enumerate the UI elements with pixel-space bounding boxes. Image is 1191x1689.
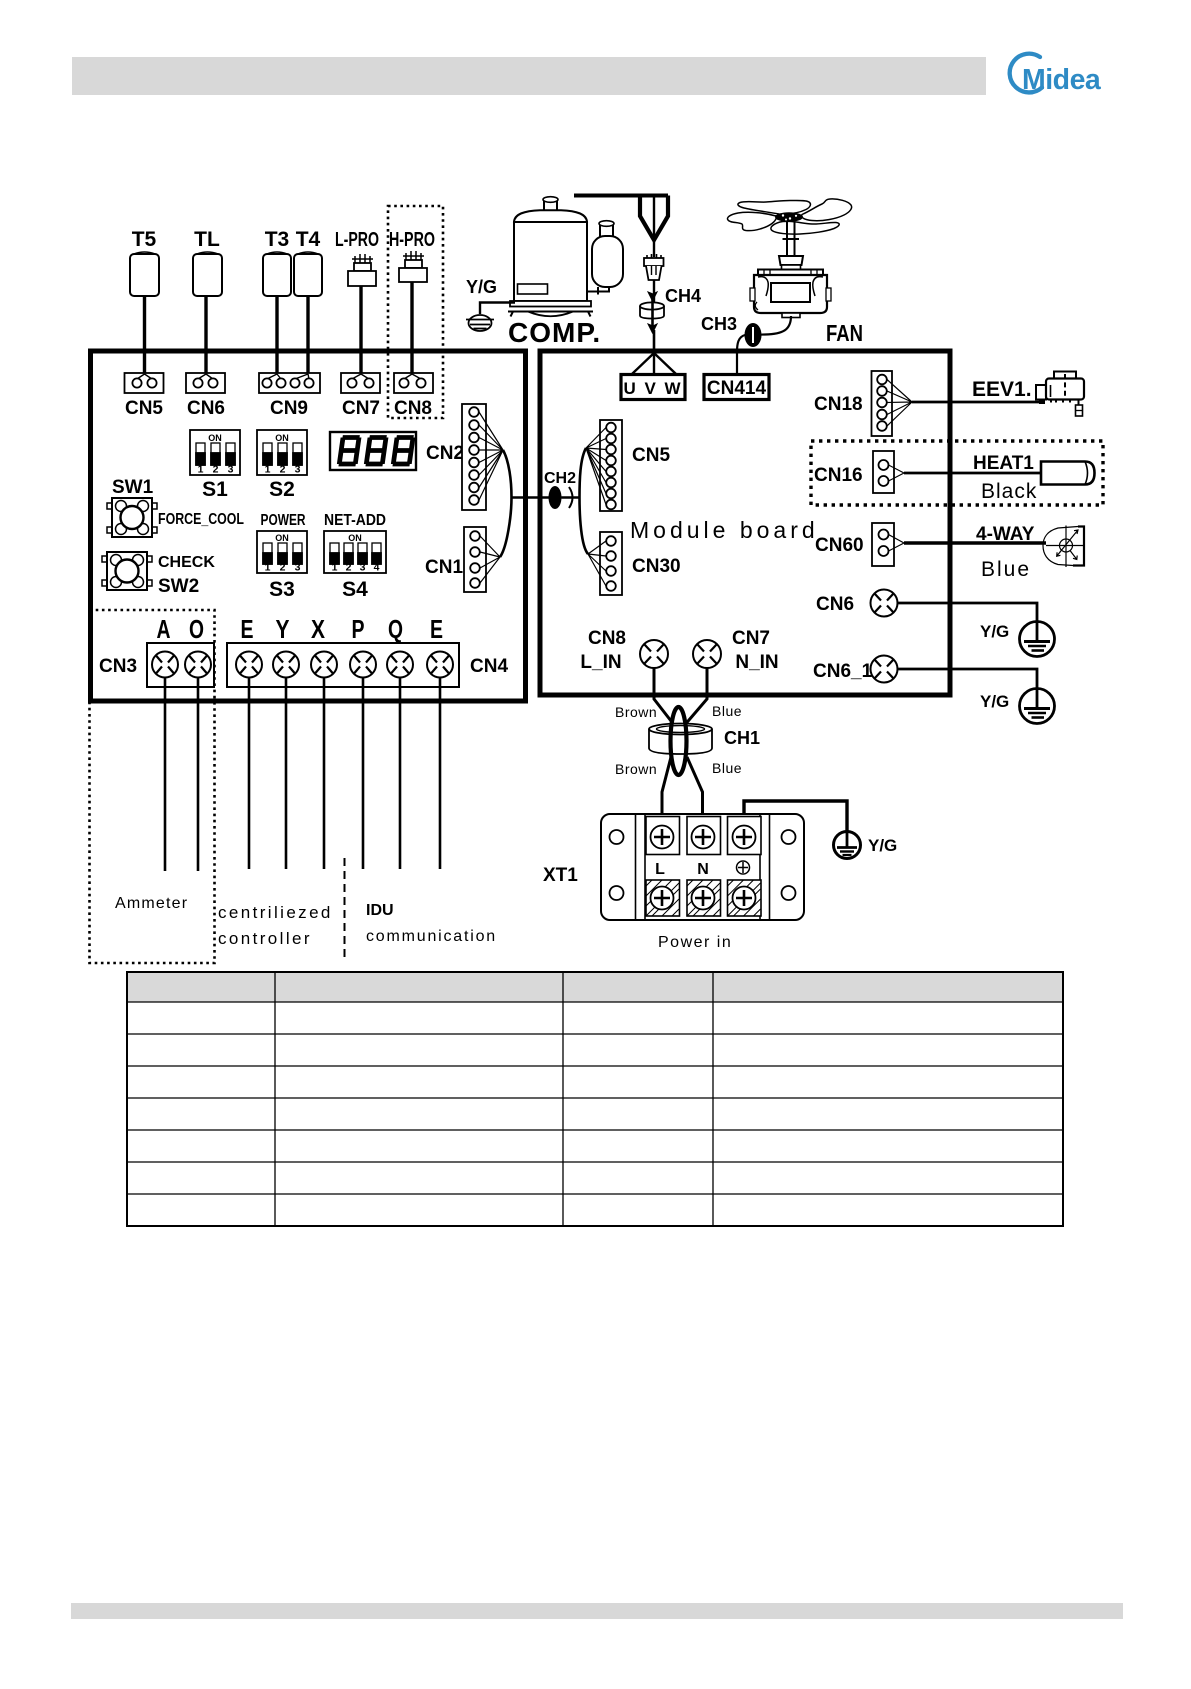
dip switch S3 [257,531,307,574]
svg-text:E: E [430,614,443,644]
svg-text:POWER: POWER [261,512,306,529]
svg-text:CN6_1: CN6_1 [813,661,873,682]
dotted enclosure around H-PRO and CN8 [388,206,443,418]
svg-text:CN30: CN30 [632,556,681,577]
wire from terminal P down [362,678,365,870]
7-segment display [330,432,416,470]
pressure switch H-PRO symbol [399,251,427,282]
screw L bottom [651,887,674,910]
tact switch SW2 [102,552,152,590]
wire CH3 to CN414 [737,335,745,374]
svg-text:Module board: Module board [630,517,819,543]
wires CN16 pins fan-out [889,465,905,481]
svg-text:Y: Y [276,614,290,644]
wire N_IN down [686,668,707,724]
4-way valve coil [1043,526,1084,568]
screw N bottom [692,887,715,910]
svg-text:CN8: CN8 [588,628,626,649]
svg-text:1: 1 [265,562,271,574]
wire CH1 to terminal N [687,757,703,826]
sensor T5 body [130,252,159,296]
screw earth top [733,826,756,849]
wire from terminal Y down [285,678,288,870]
svg-text:T4: T4 [296,228,321,251]
dip switch S4 [324,531,386,574]
dip switch S2 [257,430,307,476]
wire CN2 fan point to junction [503,450,512,498]
svg-text:HEAT1: HEAT1 [973,453,1034,474]
svg-text:Ammeter: Ammeter [115,895,188,912]
dotted enclosure CN3/Ammeter [90,610,215,963]
svg-text:ON: ON [275,533,289,543]
screw terminal Y [273,652,299,678]
svg-text:CN414: CN414 [707,378,767,399]
connector CN1 [464,527,486,592]
svg-text:centriliezed: centriliezed [218,903,333,922]
svg-text:Y/G: Y/G [980,692,1009,711]
wire H-PRO to CN8 [410,282,413,374]
top header bar [72,57,986,95]
LEFT BOARD [90,351,526,963]
wire motor to CH3 [745,316,791,335]
connector CN18 [872,371,893,436]
terminal block CN4 [227,643,459,687]
wire CN60 to 4-WAY [904,541,1046,544]
dip switch S1 [190,430,240,476]
svg-text:Y/G: Y/G [868,836,897,855]
svg-text:CN6: CN6 [816,594,854,615]
svg-text:ON: ON [348,533,362,543]
svg-text:X: X [311,614,326,644]
svg-text:ON: ON [208,433,222,443]
svg-text:CHECK: CHECK [158,554,215,571]
svg-text:4: 4 [374,562,380,574]
fan shaft [779,222,803,270]
svg-text:NET-ADD: NET-ADD [324,512,386,529]
protective earth (CN6) [1020,622,1055,657]
svg-text:CN60: CN60 [815,535,864,556]
screw terminal CN6_1 [871,656,898,683]
wire CN18 to EEV1 [912,401,1040,404]
svg-text:EEV1.: EEV1. [972,378,1032,401]
COMP ASSEMBLY [466,196,701,356]
screw terminal CN6 [871,590,898,617]
dashed separator line [344,858,346,957]
screw terminal X [311,652,337,678]
svg-text:3: 3 [360,562,366,574]
svg-text:H-PRO: H-PRO [389,229,435,251]
screw terminal CN8 L_IN [640,640,668,668]
svg-text:CN1: CN1 [425,557,463,578]
crankcase heater HEAT1 [1041,462,1095,485]
svg-text:P: P [352,614,365,644]
svg-text:3: 3 [295,464,301,476]
SENSORS [130,206,443,418]
MODULE BOARD [512,351,1104,695]
wire from terminal O down [197,678,200,872]
svg-text:E: E [241,614,254,644]
wire funnel to comp plug [653,240,655,257]
svg-text:O: O [189,614,204,644]
svg-text:S4: S4 [342,578,368,601]
svg-text:2: 2 [280,464,286,476]
wire plug to CH4 [653,280,655,303]
svg-text:S1: S1 [202,478,228,501]
svg-text:FORCE_COOL: FORCE_COOL [158,511,244,528]
wire T5 to CN5 [143,296,146,374]
svg-text:CH2: CH2 [544,470,576,487]
compressor body [508,197,593,317]
connector CN16 [873,451,894,493]
wire CN6 to earth [898,603,1038,623]
table column lines [274,972,276,1226]
wire T4 to CN9 [306,296,309,374]
RIGHT DEVICES [972,372,1095,724]
svg-text:Blue: Blue [712,760,742,776]
svg-text:TL: TL [194,228,220,251]
svg-text:CN3: CN3 [99,656,137,677]
arc mark after CH2 [569,487,573,508]
wire from terminal E2 down [439,678,442,870]
svg-text:L: L [655,861,665,878]
wires CN2 pins fan-out [479,412,503,500]
svg-text:SW1: SW1 [112,477,154,498]
wire CN6_1 to earth [898,669,1038,690]
svg-text:ON: ON [275,433,289,443]
bottom terminal boxes [646,880,761,916]
svg-text:2: 2 [280,562,286,574]
wires CN5 pins fan-in [586,428,606,505]
current transformer CH1 [649,724,712,755]
svg-text:CN4: CN4 [470,656,508,677]
svg-text:Black: Black [981,480,1037,503]
connector CN414 [704,375,769,400]
svg-text:S2: S2 [269,478,295,501]
ferrite bead CH3 [745,323,762,347]
wire loop through CH1 [671,707,687,775]
wire fork into UVW [632,353,676,374]
svg-text:N_IN: N_IN [735,652,778,673]
wire CH1 to terminal L [662,757,671,826]
wire L_IN down [654,668,673,724]
terminal block XT1 [601,814,804,920]
svg-text:COMP.: COMP. [508,317,601,348]
svg-text:CN7: CN7 [732,628,770,649]
svg-text:CH1: CH1 [724,728,760,748]
wire junction to CH2 [512,496,550,499]
svg-text:CN9: CN9 [270,398,308,419]
connector CN60 [872,523,894,566]
svg-text:T5: T5 [132,228,157,251]
svg-text:Blue: Blue [981,558,1031,581]
wire from terminal A down [164,678,167,872]
svg-text:controller: controller [218,929,312,948]
screw earth bottom [733,887,756,910]
table outer border [127,972,1063,1226]
screw terminal P [350,652,376,678]
wire L-PRO to CN7 [359,286,362,374]
svg-text:CN5: CN5 [125,398,163,419]
wire CN30 fan point to junction [580,498,589,555]
terminal block CN3 [147,643,214,687]
screw terminal O [185,652,211,678]
svg-text:Power in: Power in [658,934,732,951]
wire CN1 fan point to junction [500,498,512,558]
wire CH2 to module junction [562,496,580,499]
accumulator tank [587,221,623,295]
wire CN16 to HEAT1 [904,472,1041,475]
svg-text:Brown: Brown [615,761,657,777]
tact switch SW1 [107,498,157,537]
wire terminal earth to Y/G [744,801,847,831]
screw N top [692,826,715,849]
screw terminal CN7 N_IN [693,640,721,668]
protective earth (CN6_1) [1020,689,1055,724]
wire arrow through CH4 [648,292,657,333]
svg-text:Q: Q [388,614,403,644]
wires CN60 pins fan-out [889,535,905,552]
FAN ASSEMBLY [701,199,863,374]
svg-text:3: 3 [295,562,301,574]
svg-text:CH4: CH4 [665,286,701,306]
svg-text:1: 1 [198,464,204,476]
wire T3 to CN9 [275,296,278,374]
wire comp to earth [480,303,515,315]
dotted enclosure HEAT1 [811,441,1103,505]
svg-text:CN8: CN8 [394,398,432,419]
connector CN5 [125,373,164,393]
wires CN18 pins fan-out [887,380,912,427]
protective earth (XT1) [834,831,861,859]
screw terminal A [152,652,178,678]
svg-text:L-PRO: L-PRO [335,229,379,251]
svg-text:2: 2 [213,464,219,476]
svg-text:T3: T3 [265,228,290,251]
svg-text:SW2: SW2 [158,576,199,597]
main control board outline [91,351,526,701]
svg-text:L_IN: L_IN [580,652,621,673]
svg-text:Blue: Blue [712,703,742,719]
svg-text:CN16: CN16 [814,465,863,486]
wire from terminal E1 down [248,678,251,870]
svg-text:4-WAY: 4-WAY [976,524,1035,545]
ferrite ring CH4 [640,302,664,318]
wire TL to CN6 [204,296,207,374]
screw L top [651,826,674,849]
Midea logo [1010,54,1102,96]
connector CN30 [600,532,622,595]
svg-text:CN18: CN18 [814,394,863,415]
sensor TL body [193,252,222,296]
connector CN6 [186,373,225,393]
wire CH4 to UVW [653,330,656,355]
wires CN30 pins fan-in [588,541,606,586]
wire CN5 fan point to junction [580,448,587,498]
connector CN9 [259,373,320,393]
earth mark on XT1 [737,861,750,874]
svg-text:1: 1 [265,464,271,476]
svg-text:Y/G: Y/G [980,622,1009,641]
BOTTOM POWER [543,668,897,951]
terminal letters E Y X P Q E [241,614,444,644]
svg-text:communication: communication [366,928,497,945]
wire from terminal X down [323,678,326,870]
ferrite bead CH2 [549,486,562,509]
svg-text:N: N [697,861,709,878]
svg-text:CN2: CN2 [426,443,464,464]
connector CN7 [341,373,380,393]
svg-text:CN7: CN7 [342,398,380,419]
connector CN8 [394,373,433,393]
svg-text:Brown: Brown [615,704,657,720]
table header row (shaded) [127,972,1063,1002]
sensor T3 body [263,252,291,296]
svg-text:U V W: U V W [623,379,682,398]
wire from terminal Q down [399,678,402,870]
svg-text:IDU: IDU [366,902,394,919]
fan hub [775,212,803,222]
svg-text:S3: S3 [269,578,295,601]
compressor terminal plug [644,254,664,280]
svg-text:CN5: CN5 [632,445,670,466]
protective earth (comp) [466,315,494,331]
wires CN1 pins fan-out [480,536,500,583]
electronic expansion valve EEV1 [1036,372,1084,417]
svg-text:XT1: XT1 [543,865,578,886]
discharge funnel [640,196,668,241]
svg-text:2: 2 [346,562,352,574]
TABLE [127,972,1063,1226]
svg-text:Midea: Midea [1022,64,1102,96]
screw terminal E2 [427,652,453,678]
fan propeller [727,199,851,234]
pressure switch L-PRO symbol [348,254,376,286]
svg-text:FAN: FAN [826,320,863,346]
svg-text:1: 1 [332,562,338,574]
fan motor body [750,270,831,318]
svg-text:3: 3 [228,464,234,476]
connector CN5 (module) [600,420,622,511]
table row lines [127,1001,1063,1003]
svg-text:A: A [157,614,171,644]
module board outline [540,351,950,695]
bottom footer bar [71,1603,1123,1619]
connector CN2 [462,404,486,510]
svg-text:CN6: CN6 [187,398,225,419]
wire comp top to funnel [574,194,668,198]
screw terminal Q [387,652,413,678]
svg-text:CH3: CH3 [701,314,737,334]
sensor T4 body [294,252,322,296]
svg-text:Y/G: Y/G [466,277,497,297]
connector U V W [621,375,685,400]
screw terminal E1 [236,652,262,678]
